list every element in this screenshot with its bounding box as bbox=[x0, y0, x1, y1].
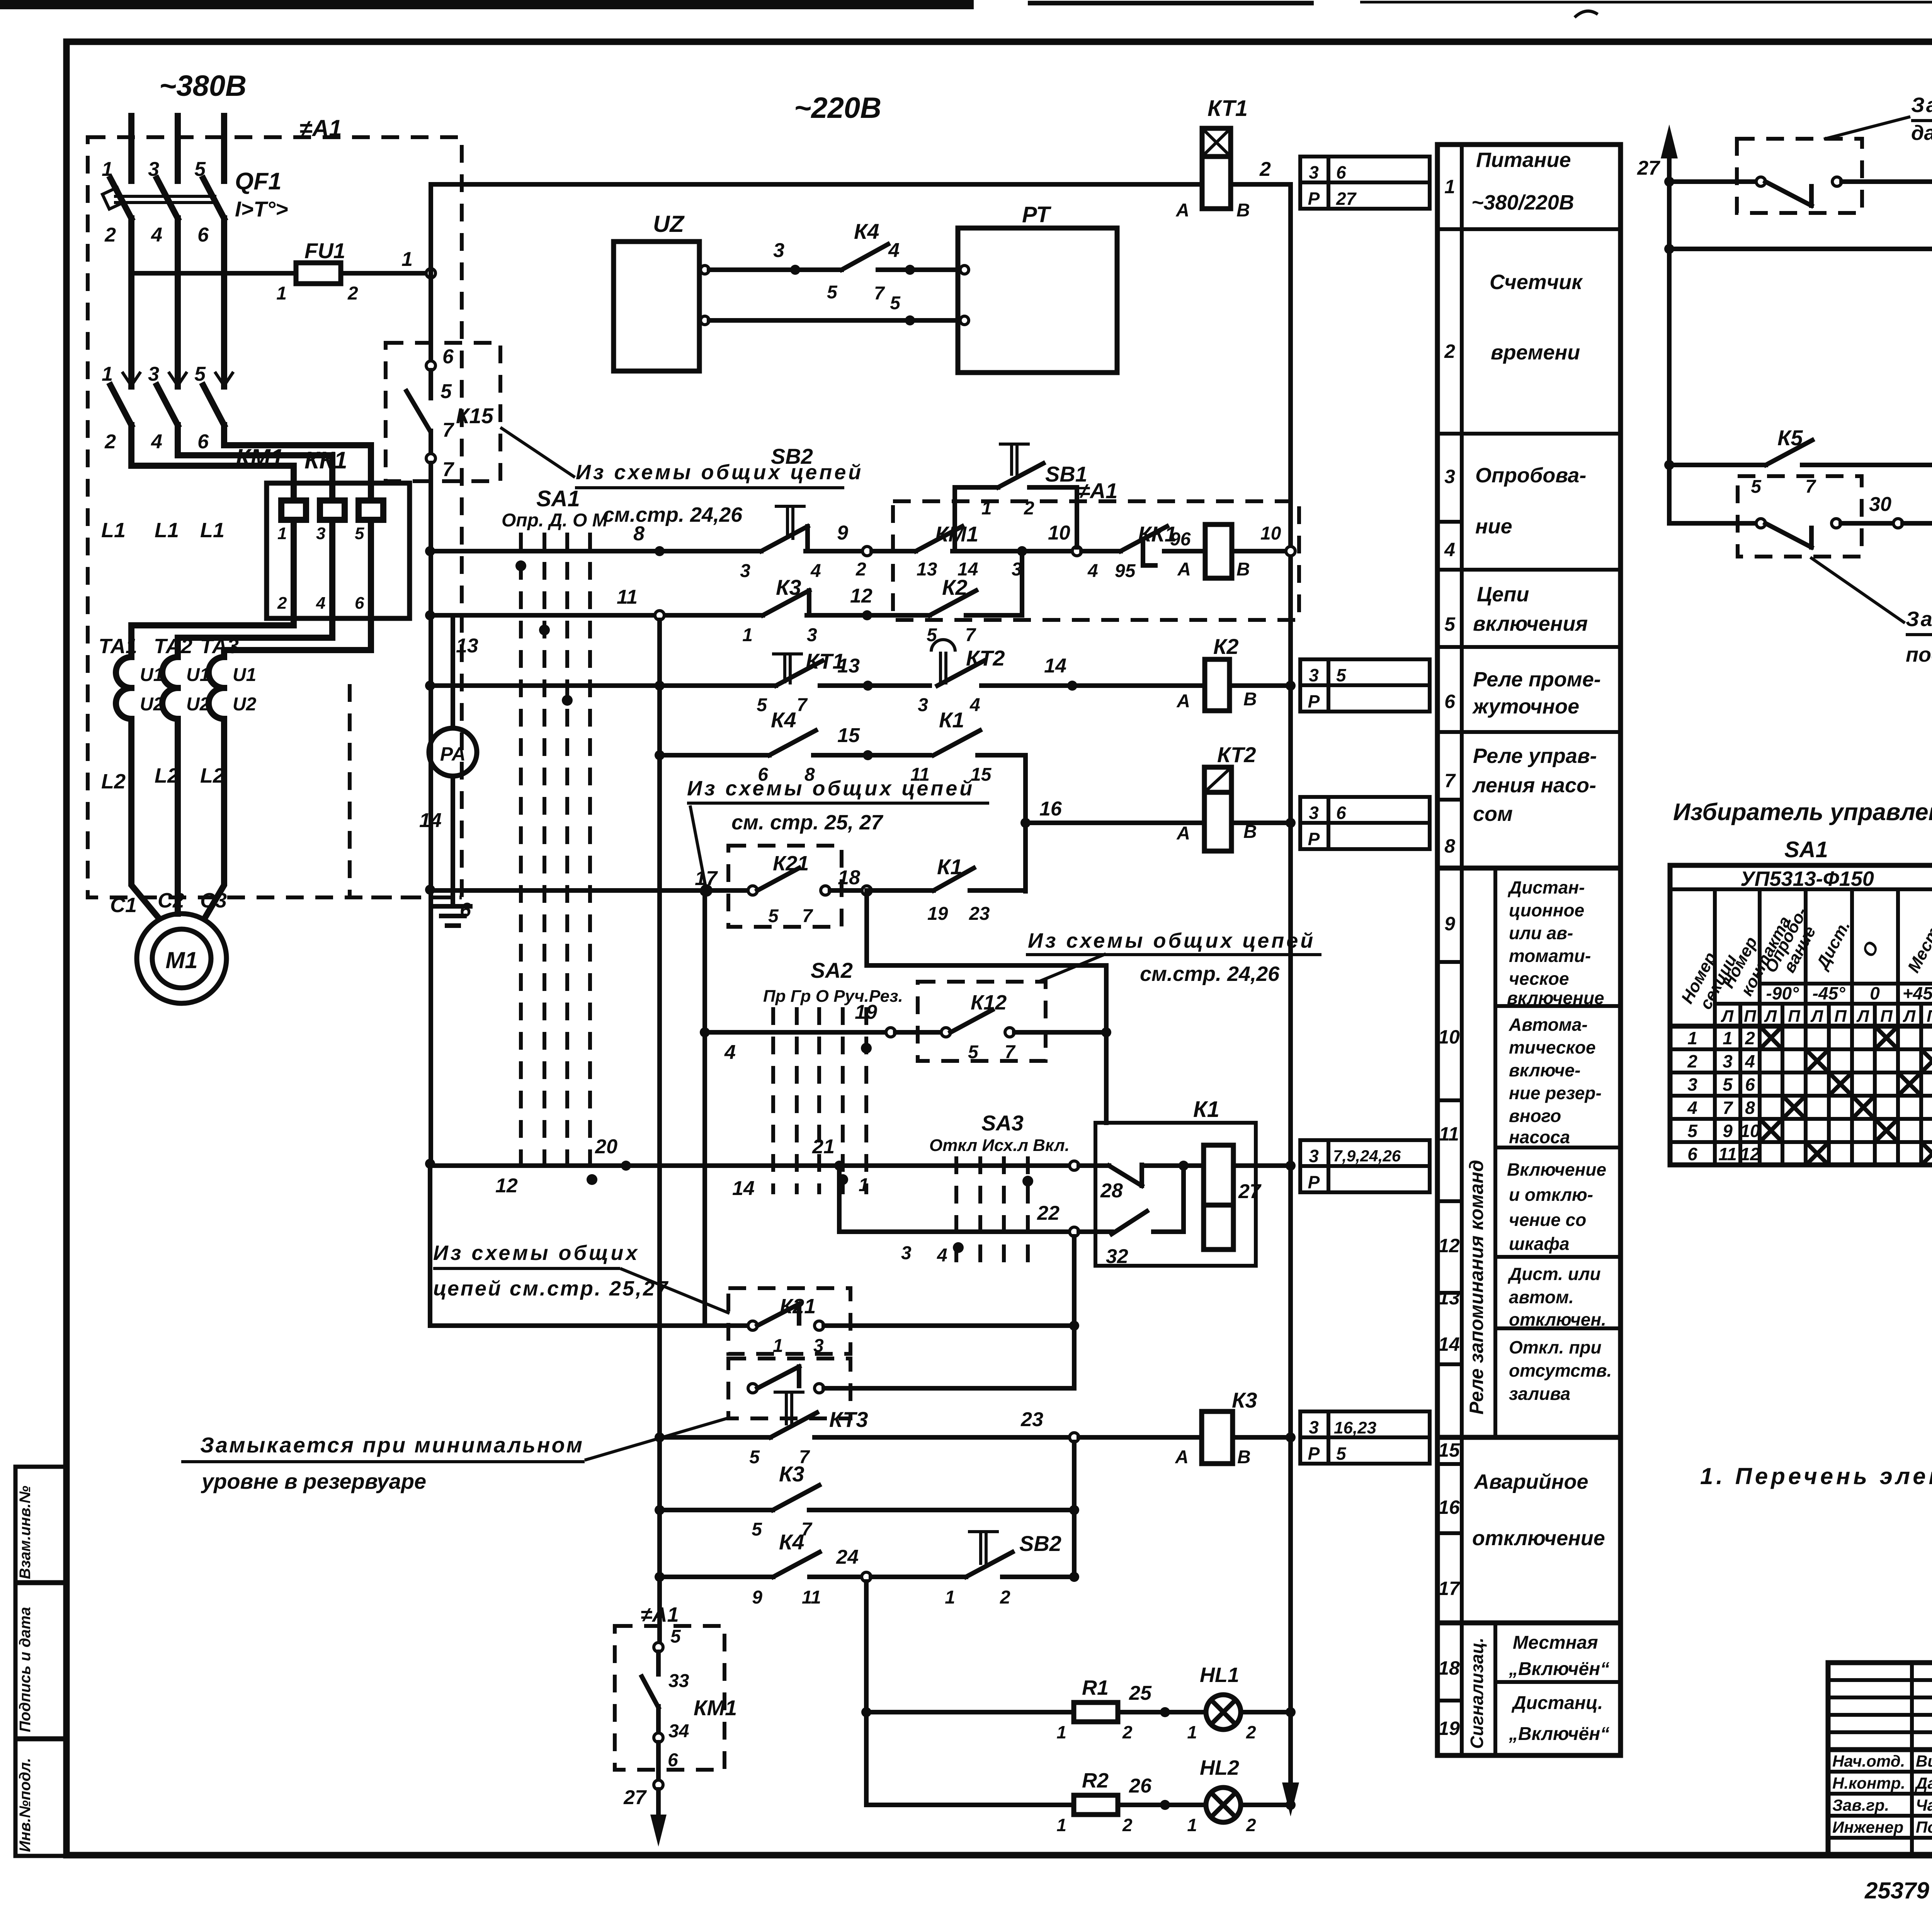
fuse FU1 bbox=[131, 238, 426, 304]
svg-text:П: П bbox=[1880, 1007, 1893, 1026]
scan edge artifact top bar 2 bbox=[1028, 1, 1314, 5]
svg-text:2: 2 bbox=[1122, 1722, 1133, 1742]
node 11 bbox=[655, 611, 664, 620]
svg-text:25379 - 02: 25379 - 02 bbox=[1864, 1878, 1932, 1903]
svg-text:К4: К4 bbox=[854, 219, 879, 243]
svg-text:К1: К1 bbox=[939, 708, 964, 732]
svg-text:жуточное: жуточное bbox=[1472, 695, 1579, 718]
svg-text:залива: залива bbox=[1509, 1384, 1570, 1404]
KM1 aux contact bottom bbox=[615, 1603, 737, 1847]
svg-text:3: 3 bbox=[1309, 162, 1319, 182]
svg-text:95: 95 bbox=[1115, 561, 1136, 581]
svg-text:Дистанц.: Дистанц. bbox=[1511, 1693, 1603, 1713]
svg-text:20: 20 bbox=[595, 1136, 617, 1158]
left margin stamp column bbox=[15, 1467, 66, 1856]
svg-text:и отклю-: и отклю- bbox=[1509, 1185, 1593, 1205]
motor M1 bbox=[110, 719, 227, 1003]
contactor KM1 main contacts bbox=[102, 218, 284, 471]
svg-text:2: 2 bbox=[1259, 158, 1271, 180]
jog phase3 to heater3 bbox=[224, 425, 371, 501]
time meter PT bbox=[958, 202, 1117, 373]
svg-text:„Включён“: „Включён“ bbox=[1509, 1724, 1609, 1744]
svg-text:5: 5 bbox=[194, 363, 206, 385]
svg-text:+45°: +45° bbox=[1903, 983, 1932, 1003]
row 1 KM1 coil circuit bbox=[425, 444, 1299, 620]
svg-text:11: 11 bbox=[802, 1587, 821, 1608]
motor circle bbox=[137, 914, 226, 1003]
current transformers TA1 TA2 TA3 bbox=[99, 519, 257, 793]
svg-text:КМ1: КМ1 bbox=[694, 1696, 737, 1720]
svg-text:насоса: насоса bbox=[1509, 1127, 1570, 1147]
svg-text:SA2: SA2 bbox=[811, 958, 853, 982]
KM1 pole 2 blade bbox=[157, 385, 178, 425]
svg-text:7: 7 bbox=[442, 419, 454, 441]
svg-text:Л: Л bbox=[1810, 1007, 1823, 1026]
QF1 pole 1 blade bbox=[111, 179, 131, 218]
svg-text:30: 30 bbox=[1869, 493, 1891, 516]
svg-text:ние: ние bbox=[1475, 515, 1512, 538]
svg-text:1: 1 bbox=[773, 1336, 783, 1356]
svg-text:11: 11 bbox=[617, 586, 638, 608]
dashed A1 box around KK1 KM1 bbox=[893, 501, 1299, 620]
svg-text:QF1: QF1 bbox=[235, 168, 282, 195]
svg-text:9: 9 bbox=[1723, 1121, 1733, 1141]
svg-text:27: 27 bbox=[623, 1786, 647, 1809]
svg-text:Замыкается при срыве: Замыкается при срыве bbox=[1911, 94, 1932, 117]
svg-text:96: 96 bbox=[1170, 529, 1191, 550]
svg-text:4: 4 bbox=[1687, 1098, 1697, 1118]
node 10 bbox=[1072, 546, 1082, 556]
svg-text:Автома-: Автома- bbox=[1509, 1015, 1588, 1035]
svg-text:ние резер-: ние резер- bbox=[1509, 1083, 1602, 1103]
svg-text:или ав-: или ав- bbox=[1509, 923, 1573, 943]
svg-text:К3: К3 bbox=[1232, 1388, 1257, 1412]
svg-text:24: 24 bbox=[836, 1546, 859, 1568]
svg-text:ческое: ческое bbox=[1509, 969, 1569, 989]
svg-text:1: 1 bbox=[277, 524, 287, 543]
svg-text:2: 2 bbox=[1000, 1587, 1010, 1608]
svg-text:Из схемы общих цепей: Из схемы общих цепей bbox=[687, 777, 975, 800]
svg-text:10: 10 bbox=[1260, 523, 1281, 544]
KM1 pole 3 blade bbox=[203, 385, 224, 425]
svg-text:19: 19 bbox=[1438, 1718, 1460, 1739]
contactor coil KM1 bbox=[1205, 524, 1232, 578]
svg-text:9: 9 bbox=[837, 522, 848, 544]
svg-text:6: 6 bbox=[197, 431, 209, 453]
svg-text:C1: C1 bbox=[110, 894, 137, 917]
thermal relay KK1 bbox=[131, 425, 478, 657]
svg-text:М1: М1 bbox=[165, 947, 197, 973]
feeder rail 11 bbox=[655, 620, 665, 1643]
relay coil K2 bbox=[1205, 659, 1230, 711]
relay contact K15 bbox=[386, 278, 500, 481]
row K4 K1 to KT2 coil bbox=[660, 708, 1430, 891]
QF1 pole 2 blade bbox=[157, 179, 178, 218]
svg-text:Зав.гр.: Зав.гр. bbox=[1832, 1796, 1889, 1814]
return jog heater1 bbox=[131, 618, 294, 657]
svg-text:2: 2 bbox=[1246, 1815, 1256, 1835]
phase wire 3 bbox=[221, 218, 227, 386]
svg-text:5: 5 bbox=[194, 158, 206, 180]
svg-text:L1: L1 bbox=[200, 519, 224, 542]
svg-text:1: 1 bbox=[859, 1175, 869, 1195]
jog phase2 to heater2 bbox=[178, 425, 332, 501]
svg-text:5: 5 bbox=[440, 380, 452, 403]
scan edge artifact top-left bar bbox=[0, 0, 974, 9]
svg-text:7: 7 bbox=[1444, 770, 1456, 792]
svg-text:К15: К15 bbox=[456, 403, 494, 428]
svg-text:11: 11 bbox=[1718, 1144, 1737, 1164]
right circuit feeder rail bbox=[1637, 124, 1678, 523]
svg-text:Опробова-: Опробова- bbox=[1475, 464, 1586, 487]
svg-text:1: 1 bbox=[102, 158, 113, 180]
svg-text:15: 15 bbox=[837, 724, 860, 747]
row SA2 K12 bbox=[700, 886, 1321, 1326]
node 24 bbox=[862, 1572, 871, 1582]
dashed enclosure A1 left bbox=[88, 137, 462, 897]
dashed box around PA bbox=[350, 684, 462, 897]
svg-text:чение со: чение со bbox=[1509, 1210, 1586, 1230]
SA1 position dots bbox=[515, 560, 526, 571]
svg-text:32: 32 bbox=[1106, 1245, 1128, 1268]
phase wire 1 bbox=[128, 218, 134, 386]
svg-text:6: 6 bbox=[1336, 162, 1346, 182]
svg-text:Пр Гр О Руч.Рез.: Пр Гр О Руч.Рез. bbox=[763, 987, 903, 1006]
svg-text:Из схемы общих: Из схемы общих bbox=[433, 1241, 639, 1265]
ref table KT1 bbox=[1300, 157, 1430, 209]
svg-text:3: 3 bbox=[773, 239, 784, 262]
svg-text:U1: U1 bbox=[233, 665, 256, 685]
ref table KT2 bbox=[1300, 797, 1430, 849]
svg-text:Питание: Питание bbox=[1476, 148, 1571, 172]
svg-text:7: 7 bbox=[442, 458, 454, 481]
svg-text:ления насо-: ления насо- bbox=[1472, 774, 1596, 797]
svg-text:5: 5 bbox=[670, 1626, 681, 1647]
KH3 KT3 row bbox=[1669, 344, 1932, 497]
svg-text:Л: Л bbox=[1721, 1007, 1734, 1026]
svg-text:3: 3 bbox=[1309, 803, 1319, 823]
svg-text:Замыкается при минимальном: Замыкается при минимальном bbox=[200, 1433, 584, 1457]
phase wire 2 bbox=[175, 218, 181, 386]
svg-text:тическое: тическое bbox=[1509, 1037, 1596, 1057]
svg-text:7: 7 bbox=[1723, 1098, 1733, 1118]
svg-text:3: 3 bbox=[918, 695, 928, 715]
svg-text:РТ: РТ bbox=[1022, 202, 1051, 227]
svg-text:3: 3 bbox=[807, 625, 817, 645]
KM1 pole 1 blade bbox=[111, 385, 131, 425]
svg-text:ТА3: ТА3 bbox=[200, 635, 239, 658]
svg-text:Л: Л bbox=[1856, 1007, 1869, 1026]
svg-text:2: 2 bbox=[104, 224, 116, 246]
callout to K15 from common circuits bbox=[500, 427, 863, 526]
svg-text:4: 4 bbox=[810, 561, 821, 581]
svg-text:3: 3 bbox=[740, 561, 750, 581]
QF1 trip square bbox=[102, 187, 124, 209]
svg-text:А: А bbox=[1175, 200, 1189, 221]
node 1 bbox=[426, 269, 435, 278]
svg-text:2: 2 bbox=[1246, 1722, 1256, 1742]
svg-text:2: 2 bbox=[855, 559, 866, 580]
svg-text:5: 5 bbox=[355, 524, 364, 543]
svg-text:„Включён“: „Включён“ bbox=[1509, 1659, 1609, 1679]
svg-text:1: 1 bbox=[1056, 1722, 1066, 1742]
svg-text:В: В bbox=[1236, 200, 1250, 221]
svg-text:L1: L1 bbox=[101, 519, 126, 542]
svg-text:7: 7 bbox=[1805, 477, 1816, 497]
svg-text:В: В bbox=[1237, 1447, 1251, 1467]
terminal 17 bbox=[702, 886, 711, 895]
node 15 bbox=[863, 750, 873, 760]
svg-text:-45°: -45° bbox=[1813, 983, 1845, 1003]
resistor R1 bbox=[1074, 1702, 1118, 1722]
ref table K1 bbox=[1300, 1140, 1430, 1192]
svg-text:КК1: КК1 bbox=[304, 447, 347, 474]
svg-text:3: 3 bbox=[1444, 466, 1455, 487]
phase stub L1 bbox=[128, 116, 134, 181]
svg-text:5: 5 bbox=[1751, 477, 1762, 497]
wire KK1 to PA bbox=[451, 618, 455, 728]
svg-text:2: 2 bbox=[1745, 1028, 1755, 1048]
svg-text:1: 1 bbox=[981, 498, 992, 519]
note bearing overheat bbox=[1810, 557, 1932, 666]
svg-text:13: 13 bbox=[1438, 1287, 1460, 1309]
full row dividers bbox=[1437, 227, 1621, 231]
svg-text:L2: L2 bbox=[101, 770, 126, 793]
svg-text:Вишневский: Вишневский bbox=[1916, 1752, 1932, 1770]
svg-text:6: 6 bbox=[668, 1750, 678, 1771]
KK1 trip contact bbox=[1082, 549, 1121, 553]
svg-text:L1: L1 bbox=[155, 519, 179, 542]
svg-text:КТ3: КТ3 bbox=[829, 1407, 868, 1432]
K15 dashed box bbox=[386, 343, 500, 481]
svg-text:Реле запоминания команд: Реле запоминания команд bbox=[1466, 1160, 1487, 1415]
svg-text:1: 1 bbox=[1187, 1815, 1197, 1835]
svg-text:HL1: HL1 bbox=[1200, 1663, 1239, 1687]
svg-text:Давлианидзе: Давлианидзе bbox=[1915, 1774, 1932, 1792]
note from common circuits K21 row bbox=[433, 1241, 730, 1313]
svg-text:7: 7 bbox=[965, 625, 976, 645]
svg-text:Р: Р bbox=[1308, 1172, 1320, 1192]
svg-text:3: 3 bbox=[316, 524, 325, 543]
phase stub L3 bbox=[221, 116, 227, 181]
ammeter PA branch bbox=[350, 618, 477, 926]
wire UZ to PT lower bbox=[709, 318, 958, 323]
svg-text:Р: Р bbox=[1308, 1444, 1320, 1464]
QF1 pole 3 blade bbox=[203, 179, 224, 218]
svg-text:34: 34 bbox=[668, 1721, 689, 1742]
lower branch 3-4 to 22 bbox=[839, 1166, 1070, 1232]
svg-text:27: 27 bbox=[1637, 157, 1660, 179]
svg-text:3: 3 bbox=[1309, 665, 1319, 685]
svg-text:14: 14 bbox=[732, 1177, 755, 1200]
svg-text:подшипников: подшипников bbox=[1906, 643, 1932, 666]
svg-text:отключение: отключение bbox=[1472, 1527, 1605, 1550]
svg-text:R1: R1 bbox=[1082, 1676, 1109, 1699]
contact K4 top bbox=[827, 219, 958, 304]
svg-text:Местная: Местная bbox=[1513, 1633, 1598, 1653]
motor leads bbox=[131, 719, 158, 917]
svg-text:23: 23 bbox=[1020, 1408, 1043, 1431]
svg-text:включение: включение bbox=[1507, 988, 1604, 1008]
title block signature table bbox=[1828, 1663, 1932, 1854]
svg-text:Чаруева: Чаруева bbox=[1916, 1796, 1932, 1814]
svg-text:17: 17 bbox=[1438, 1578, 1461, 1599]
row HL1 bbox=[861, 1707, 871, 1717]
scan artifact top center hook bbox=[1575, 11, 1598, 17]
svg-text:см.стр. 24,26: см.стр. 24,26 bbox=[603, 503, 743, 526]
node 16 bbox=[1020, 818, 1031, 828]
svg-text:сом: сом bbox=[1473, 802, 1513, 826]
svg-text:1: 1 bbox=[401, 248, 413, 271]
svg-text:5: 5 bbox=[757, 695, 767, 715]
drop from node 18 to K1 feed bbox=[867, 890, 1106, 1123]
svg-text:2: 2 bbox=[277, 594, 287, 613]
svg-text:7,9,24,26: 7,9,24,26 bbox=[1333, 1147, 1401, 1165]
svg-text:4: 4 bbox=[969, 695, 980, 715]
svg-text:давления: давления bbox=[1911, 121, 1932, 145]
right rail bottom arrow bbox=[1282, 1782, 1299, 1816]
svg-text:Р: Р bbox=[1308, 189, 1320, 209]
scan edge artifact top thin line bbox=[1360, 1, 1932, 3]
svg-text:А: А bbox=[1176, 823, 1190, 844]
svg-text:Опр. Д. О М: Опр. Д. О М bbox=[502, 510, 608, 531]
svg-text:5: 5 bbox=[749, 1447, 760, 1467]
node 13 bbox=[863, 681, 873, 691]
note level switch bbox=[181, 1418, 730, 1493]
node 8 bbox=[655, 546, 665, 556]
svg-text:3: 3 bbox=[813, 1336, 824, 1356]
svg-text:14: 14 bbox=[1438, 1333, 1460, 1355]
svg-text:7: 7 bbox=[797, 695, 808, 715]
node 30 bbox=[1893, 519, 1903, 528]
svg-text:томати-: томати- bbox=[1509, 946, 1591, 966]
svg-text:Из схемы общих цепей: Из схемы общих цепей bbox=[1028, 929, 1315, 952]
svg-text:см.стр. 24,26: см.стр. 24,26 bbox=[1140, 962, 1280, 986]
svg-text:Откл Исх.л Вкл.: Откл Исх.л Вкл. bbox=[929, 1136, 1070, 1155]
QF1 crossbar bbox=[114, 195, 216, 198]
pushbutton SB1 bypass bbox=[955, 487, 1077, 551]
node 9 bbox=[862, 546, 872, 556]
svg-text:4: 4 bbox=[151, 431, 162, 453]
svg-text:Дист. или: Дист. или bbox=[1507, 1264, 1601, 1284]
svg-text:13: 13 bbox=[456, 635, 478, 657]
svg-text:10: 10 bbox=[1048, 522, 1070, 544]
svg-text:≠А1: ≠А1 bbox=[641, 1603, 679, 1626]
svg-text:В: В bbox=[1243, 689, 1257, 710]
svg-text:РА: РА bbox=[440, 743, 466, 765]
svg-text:5: 5 bbox=[1444, 613, 1456, 635]
KM1 chevron 2 bbox=[168, 372, 187, 386]
svg-text:1: 1 bbox=[1444, 176, 1455, 197]
svg-text:5: 5 bbox=[1723, 1074, 1733, 1095]
svg-text:Н.контр.: Н.контр. bbox=[1832, 1774, 1905, 1792]
node 3 bbox=[1017, 546, 1027, 556]
heater element 2 bbox=[320, 501, 345, 618]
svg-text:R2: R2 bbox=[1082, 1769, 1109, 1792]
svg-text:5: 5 bbox=[768, 906, 779, 926]
svg-text:SB2: SB2 bbox=[771, 444, 813, 468]
breaker QF1 bbox=[102, 116, 288, 246]
phase stub L2 bbox=[175, 116, 181, 181]
svg-text:К1: К1 bbox=[1193, 1097, 1219, 1122]
svg-text:6: 6 bbox=[1336, 803, 1346, 823]
svg-text:18: 18 bbox=[1438, 1657, 1460, 1679]
svg-text:П: П bbox=[1744, 1007, 1757, 1026]
svg-text:13: 13 bbox=[917, 559, 937, 580]
svg-text:26: 26 bbox=[1129, 1775, 1152, 1797]
svg-text:П: П bbox=[1927, 1007, 1932, 1026]
svg-text:C2: C2 bbox=[158, 889, 184, 912]
svg-text:П: П bbox=[1788, 1007, 1801, 1026]
svg-text:вного: вного bbox=[1509, 1106, 1561, 1126]
svg-text:2: 2 bbox=[1122, 1815, 1133, 1835]
svg-text:К3: К3 bbox=[779, 1462, 804, 1486]
row K21 second bbox=[430, 1164, 1079, 1356]
svg-text:2: 2 bbox=[1024, 498, 1034, 519]
row 16 K3 coil circuit bbox=[660, 1388, 1430, 1467]
rectifier UZ bbox=[614, 211, 709, 371]
svg-text:Избиратель управления: Избиратель управления bbox=[1673, 799, 1932, 826]
svg-text:5: 5 bbox=[1687, 1121, 1698, 1141]
top rail to KT1 bbox=[431, 184, 1202, 273]
svg-text:Откл. при: Откл. при bbox=[1509, 1337, 1602, 1357]
svg-text:Подпись и дата: Подпись и дата bbox=[17, 1607, 34, 1732]
svg-text:8: 8 bbox=[1745, 1098, 1755, 1118]
svg-text:КТ2: КТ2 bbox=[1217, 742, 1256, 767]
svg-text:А: А bbox=[1176, 691, 1190, 712]
svg-text:16,23: 16,23 bbox=[1334, 1418, 1376, 1437]
row level switch bbox=[728, 1236, 1074, 1418]
svg-text:4: 4 bbox=[888, 239, 900, 262]
svg-text:13: 13 bbox=[837, 655, 860, 677]
svg-text:12: 12 bbox=[495, 1175, 518, 1197]
table frame bbox=[1437, 145, 1621, 1755]
ref table K2 bbox=[1300, 659, 1430, 712]
svg-text:25: 25 bbox=[1129, 1682, 1152, 1704]
K1 changeover upper bbox=[1079, 1163, 1109, 1168]
relay K1 assembly box bbox=[1095, 1123, 1256, 1266]
svg-text:6: 6 bbox=[1444, 691, 1456, 712]
ground bbox=[435, 906, 470, 926]
svg-text:5: 5 bbox=[752, 1519, 762, 1540]
svg-text:К2: К2 bbox=[1213, 634, 1239, 659]
svg-text:П: П bbox=[1834, 1007, 1847, 1026]
left rail bbox=[429, 463, 433, 1164]
node 20 bbox=[621, 1161, 631, 1171]
svg-text:Реле управ-: Реле управ- bbox=[1473, 744, 1597, 768]
svg-text:включе-: включе- bbox=[1509, 1060, 1580, 1080]
svg-text:Инженер: Инженер bbox=[1832, 1818, 1903, 1836]
svg-text:3: 3 bbox=[1309, 1146, 1319, 1166]
K1 coil bbox=[1204, 1145, 1233, 1205]
ammeter PA bbox=[429, 728, 477, 776]
callout to K12 bbox=[1039, 954, 1106, 982]
wire node1 down bbox=[429, 278, 433, 361]
svg-text:К4: К4 bbox=[779, 1530, 804, 1554]
svg-text:3: 3 bbox=[1309, 1417, 1319, 1437]
svg-text:4: 4 bbox=[1745, 1051, 1755, 1071]
relay coil K3 bbox=[1202, 1411, 1233, 1464]
svg-text:≠А1: ≠А1 bbox=[299, 115, 342, 141]
text cell dividers rows 9-14 bbox=[1495, 1004, 1621, 1008]
svg-text:шкафа: шкафа bbox=[1509, 1234, 1570, 1254]
svg-text:отключен.: отключен. bbox=[1509, 1309, 1606, 1330]
KM1 chevron 1 bbox=[122, 372, 141, 386]
K1 lower contact bbox=[1079, 1229, 1112, 1234]
svg-text:7: 7 bbox=[874, 283, 885, 304]
svg-text:~380/220В: ~380/220В bbox=[1471, 191, 1574, 214]
svg-text:1. Перечень элементов и поя: 1. Перечень элементов и пояснения к схем… bbox=[1700, 1463, 1932, 1489]
